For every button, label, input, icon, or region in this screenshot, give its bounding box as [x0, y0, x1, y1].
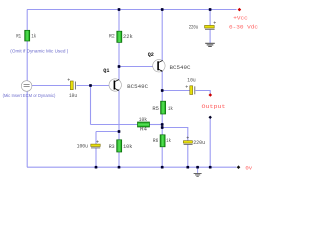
ground bottom: [194, 167, 202, 176]
wire R3 bottom to rail: [118, 152, 120, 167]
node R4 R5 junction: [161, 123, 164, 126]
wire mic to C1: [32, 85, 70, 87]
node R3 rail: [118, 166, 121, 169]
transistor Q2 BC549C: [148, 52, 191, 72]
wire R5 bottom to R6 top node chain: [161, 114, 163, 135]
wire output node to C3: [162, 90, 189, 92]
svg-text:(Omit if Dynamic Mic Used ): (Omit if Dynamic Mic Used ): [10, 48, 68, 53]
wire R1 bottom to mic top: [26, 41, 28, 81]
wire R2 bottom to collector node: [118, 43, 120, 81]
node C5 rail: [95, 166, 98, 169]
wire mic bottom to bottom rail: [26, 92, 28, 168]
wire down to C5 100u: [95, 132, 97, 145]
capacitor C2 220u: [189, 21, 217, 31]
wire C5 bottom to rail: [95, 148, 97, 167]
svg-text:10k: 10k: [123, 144, 132, 150]
node Q2 emitter output: [161, 89, 164, 92]
0v terminal: [237, 165, 241, 169]
svg-text:220u: 220u: [189, 24, 198, 30]
wire bottom 0v rail: [27, 166, 237, 168]
svg-text:R5: R5: [152, 106, 159, 112]
svg-text:BC549C: BC549C: [127, 84, 148, 90]
svg-text:0v: 0v: [245, 164, 252, 171]
svg-text:1k: 1k: [168, 106, 173, 112]
wire top supply rail: [27, 9, 237, 11]
node ground rail: [196, 166, 199, 169]
resistor R3: [109, 140, 133, 152]
wire rail to C2 220u top: [209, 10, 211, 26]
node 220u branch junction: [161, 126, 164, 129]
wire collector node to Q2 base: [119, 66, 153, 68]
svg-text:10k: 10k: [139, 117, 147, 123]
resistor R5: [152, 101, 173, 114]
node R2 top rail: [118, 8, 121, 11]
wire feedback to R4: [91, 124, 138, 126]
wire node to C4 220u branch: [162, 128, 188, 141]
wire C4 bottom to rail: [187, 145, 189, 168]
node Q2 collector rail: [161, 8, 164, 11]
wire Q2 emitter down to output node: [161, 71, 163, 101]
svg-text:10u: 10u: [187, 77, 195, 83]
capacitor C3 10u output: [185, 77, 195, 94]
wire rail to R2 top: [118, 10, 120, 32]
svg-text:+: +: [185, 85, 188, 91]
node C2 rail: [209, 8, 212, 11]
node R6 rail: [161, 166, 164, 169]
node Q1 emitter junction: [118, 130, 121, 133]
wire C2 bottom to ground: [209, 30, 211, 44]
resistor R1: [16, 30, 36, 41]
power terminal +Vcc: [238, 8, 242, 12]
wire R6 bottom to rail: [161, 147, 163, 167]
microphone MIC1: [21, 81, 32, 92]
resistor R4: [138, 117, 150, 132]
wire feedback node down: [90, 86, 92, 125]
svg-text:(Mic Insert ECM or Dynamic): (Mic Insert ECM or Dynamic): [3, 93, 56, 98]
svg-text:6-30 Vdc: 6-30 Vdc: [229, 23, 259, 30]
wire emitter node left: [96, 131, 119, 133]
svg-text:+Vcc: +Vcc: [233, 14, 248, 21]
svg-text:BC549C: BC549C: [170, 65, 191, 71]
svg-text:220u: 220u: [193, 140, 205, 146]
capacitor C4 220u: [183, 135, 205, 146]
svg-text:22k: 22k: [123, 34, 133, 40]
svg-text:R6: R6: [153, 138, 158, 144]
capacitor C1 10u: [67, 78, 77, 99]
svg-text:+: +: [67, 78, 70, 84]
ground top right: [205, 43, 215, 46]
svg-text:R1: R1: [16, 33, 21, 39]
wire node to R3 top: [118, 132, 120, 140]
svg-text:+: +: [186, 135, 189, 141]
capacitor C5 100u: [77, 139, 101, 149]
wire C3 to output pin: [196, 91, 211, 95]
node Q1 base C1 junction: [89, 84, 92, 87]
output terminal: [209, 93, 213, 97]
resistor R6: [153, 135, 171, 147]
output ground terminal node: [209, 116, 212, 119]
node output ground rail: [209, 166, 212, 169]
wire R4 right to node: [150, 124, 163, 126]
svg-text:R2: R2: [109, 34, 115, 40]
svg-text:+: +: [96, 139, 99, 145]
svg-text:R4: R4: [140, 127, 147, 133]
svg-text:10u: 10u: [69, 93, 77, 99]
node C4 rail: [186, 166, 189, 169]
transistor Q1 BC549C: [103, 68, 148, 91]
wire Q2 collector to rail: [161, 10, 163, 61]
wire output ground terminal down: [209, 117, 211, 167]
wire Q1 emitter down: [118, 90, 120, 131]
svg-text:+: +: [213, 21, 216, 27]
svg-text:1k: 1k: [31, 33, 36, 39]
svg-text:100u: 100u: [77, 143, 88, 149]
node R2 bottom collector: [118, 65, 121, 68]
svg-text:Q1: Q1: [103, 68, 109, 74]
svg-text:Q2: Q2: [148, 52, 154, 58]
svg-text:1k: 1k: [166, 138, 171, 144]
wire left vertical from rail to R1: [26, 10, 28, 31]
wire C1 to Q1 base node: [77, 85, 110, 87]
svg-text:Output: Output: [202, 103, 226, 110]
resistor R2: [109, 31, 133, 42]
svg-text:R3: R3: [109, 144, 115, 150]
